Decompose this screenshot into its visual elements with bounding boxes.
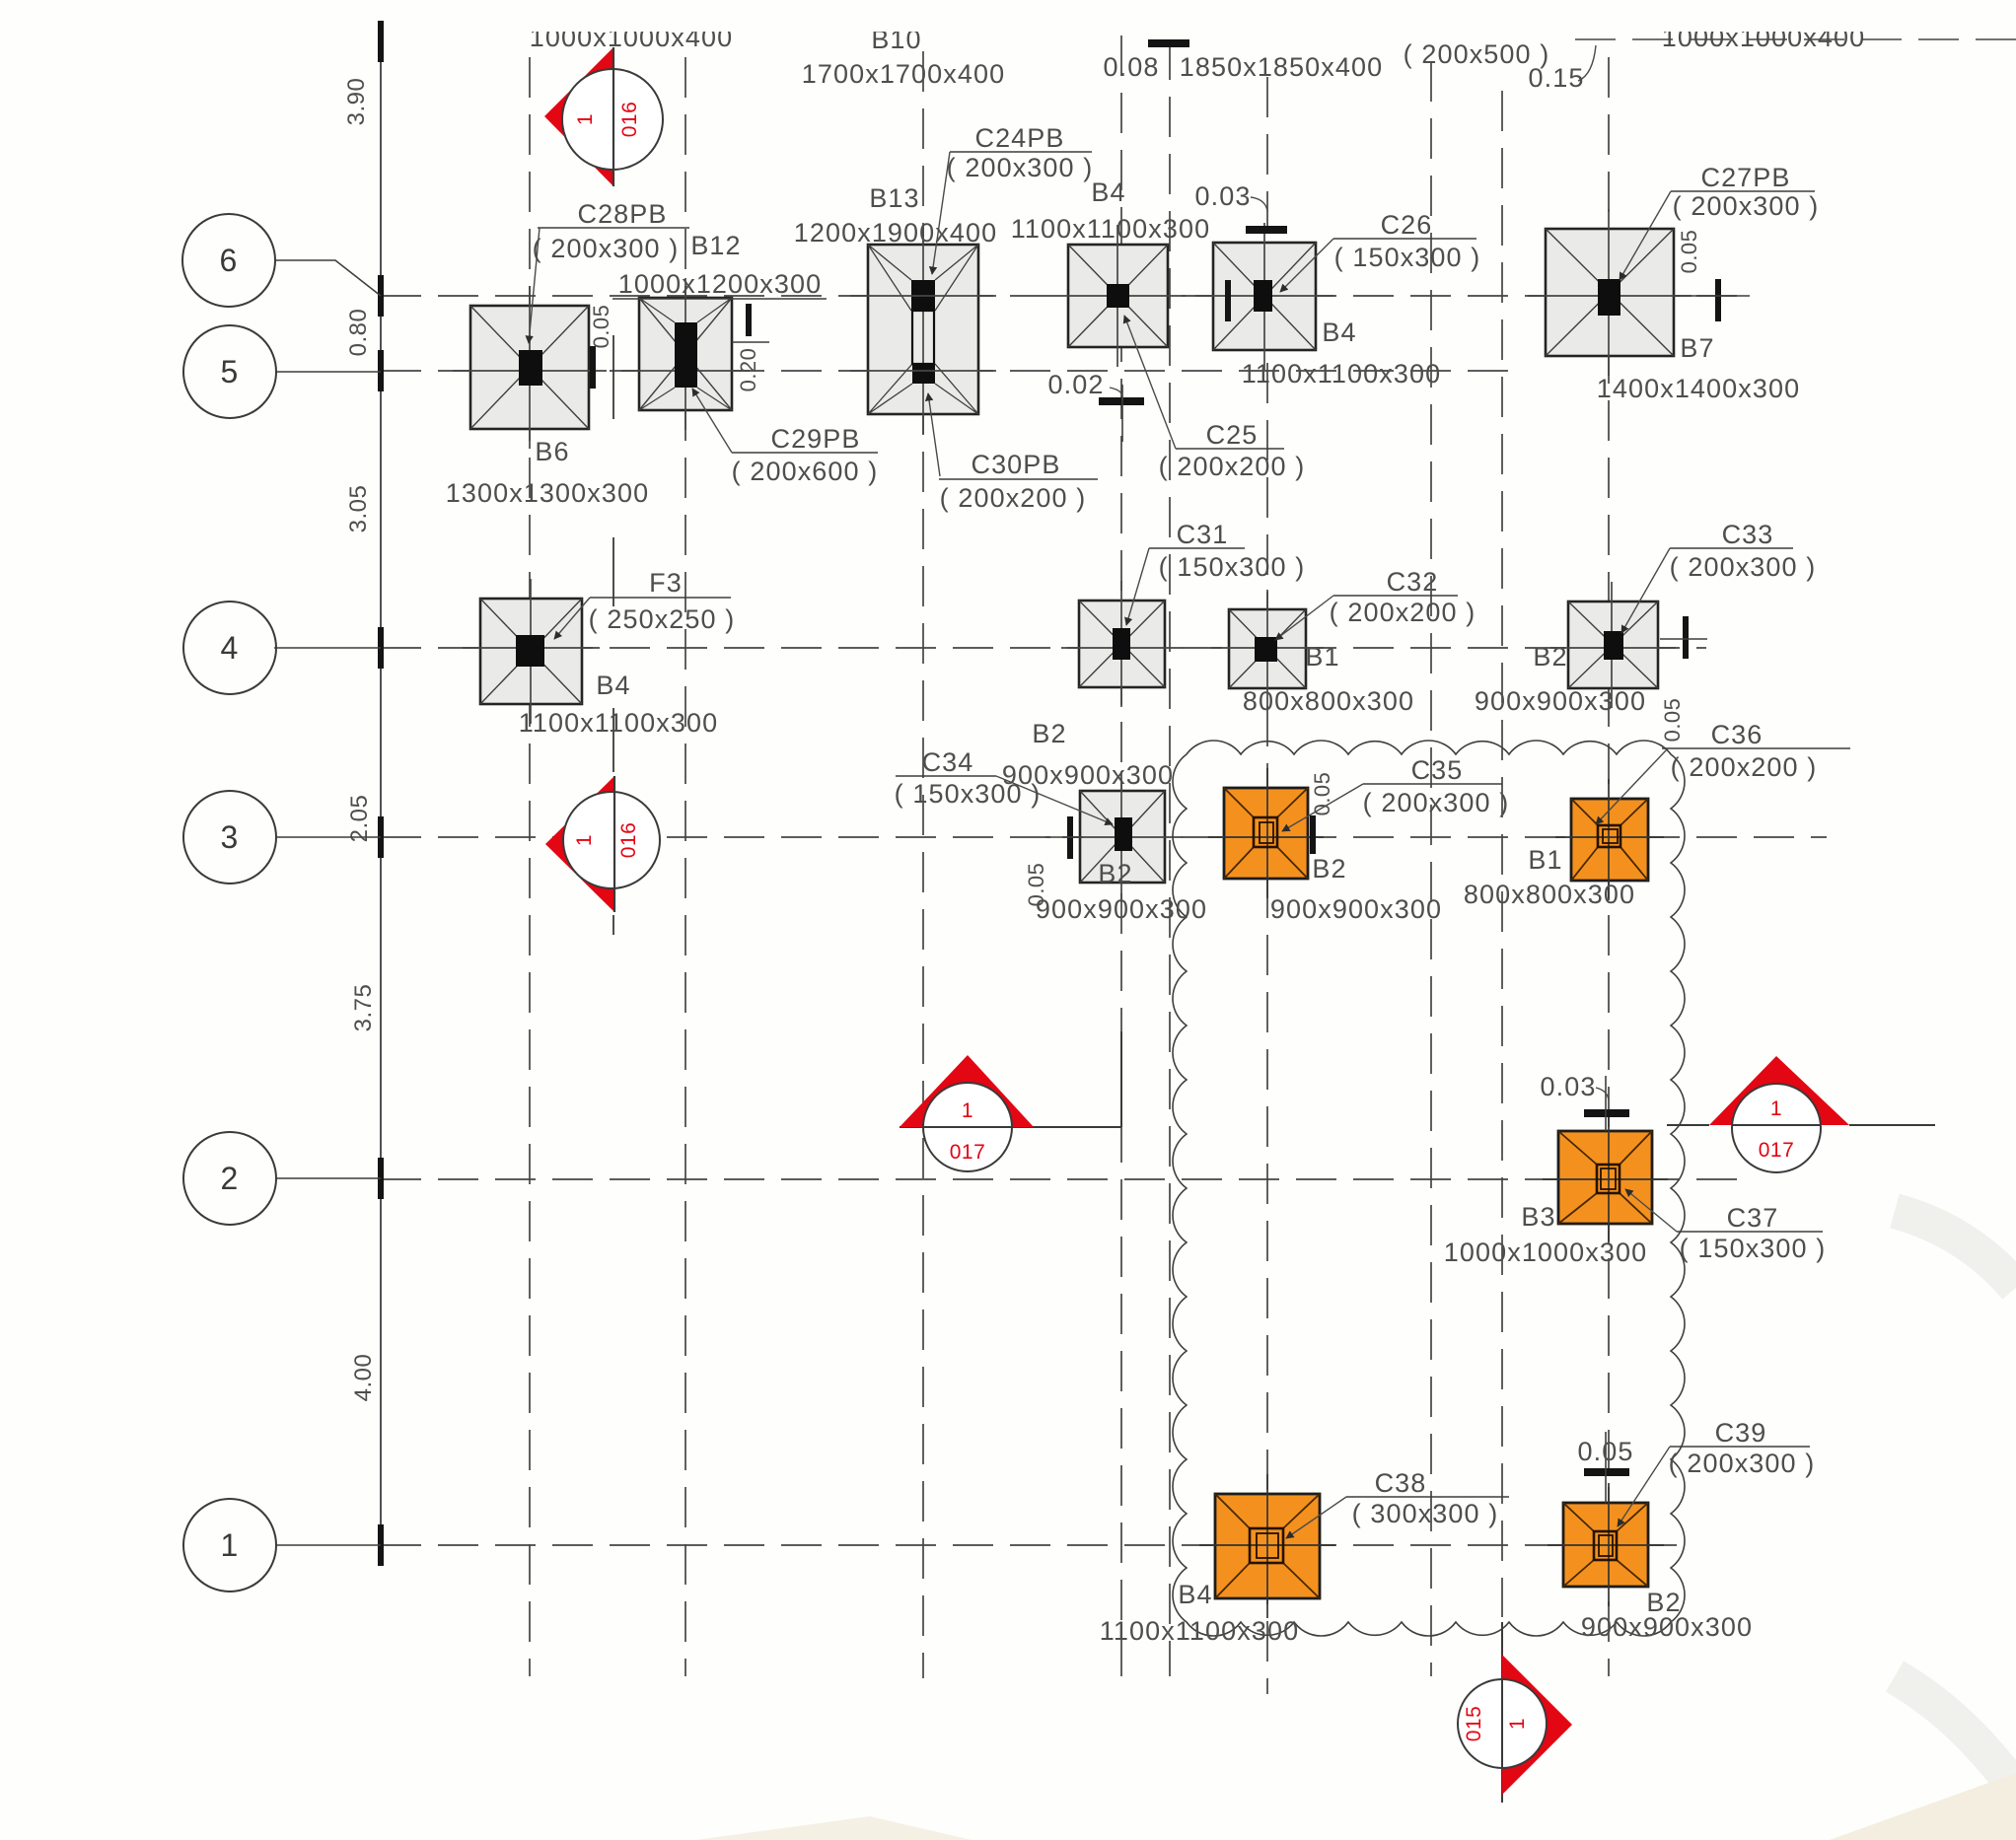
footing B2 C35	[1208, 768, 1324, 898]
grid bubble 3	[183, 791, 276, 884]
section marker 1/017 right	[1667, 1124, 1709, 1126]
svg-text:C35: C35	[1411, 755, 1464, 785]
svg-text:2.05: 2.05	[346, 795, 373, 843]
grid bubble 6	[182, 214, 275, 307]
svg-text:B2: B2	[1312, 854, 1346, 884]
svg-text:B4: B4	[1322, 318, 1356, 347]
svg-text:1200x1900x400: 1200x1900x400	[794, 218, 997, 248]
grid bubble 2	[183, 1132, 276, 1225]
watermark band bottom center	[695, 1816, 972, 1840]
grid line 5 y=376	[381, 370, 1514, 372]
grid line D x=1137	[1120, 35, 1122, 1676]
svg-text:B2: B2	[1533, 642, 1567, 672]
svg-text:016: 016	[618, 102, 641, 138]
svg-text:C24PB: C24PB	[974, 123, 1064, 153]
svg-text:1100x1100x300: 1100x1100x300	[1011, 214, 1210, 244]
svg-text:( 150x300 ): ( 150x300 )	[1680, 1234, 1827, 1263]
svg-text:900x900x300: 900x900x300	[1036, 894, 1207, 924]
grid line G x=1451	[1430, 61, 1432, 1676]
svg-text:800x800x300: 800x800x300	[1464, 880, 1635, 909]
vertical dimension line	[380, 39, 382, 1545]
svg-text:1000x1000x300: 1000x1000x300	[1444, 1238, 1647, 1267]
svg-text:B3: B3	[1521, 1202, 1555, 1232]
svg-text:1: 1	[1770, 1097, 1782, 1120]
svg-text:C34: C34	[922, 747, 974, 777]
offset tick B7 right	[1715, 279, 1721, 321]
section marker 1/016 top	[544, 47, 613, 186]
svg-text:6: 6	[220, 243, 239, 278]
svg-text:1: 1	[221, 1527, 240, 1563]
grid line B x=695	[684, 57, 686, 1676]
revision cloud	[1173, 741, 1685, 1636]
svg-text:( 200x200 ): ( 200x200 )	[940, 483, 1087, 513]
footing B7	[1528, 209, 1692, 376]
offset tick C33 right	[1683, 616, 1689, 659]
svg-text:900x900x300: 900x900x300	[1270, 894, 1442, 924]
offset tick C35 right	[1310, 815, 1316, 854]
svg-text:1850x1850x400: 1850x1850x400	[1180, 52, 1383, 82]
bubble leaders	[275, 260, 381, 296]
footing B4 grid6 left	[1050, 225, 1186, 367]
footing B3 C37	[1543, 1111, 1668, 1243]
svg-text:4.00: 4.00	[350, 1354, 377, 1402]
footing B2 C39	[1548, 1483, 1664, 1606]
grid line E x=1186	[1169, 39, 1171, 1676]
svg-text:B6: B6	[535, 437, 569, 466]
grid line 2 y=1196	[381, 1178, 1748, 1180]
svg-text:C33: C33	[1722, 520, 1774, 549]
grid line I x=1631	[1608, 57, 1610, 1676]
svg-text:C38: C38	[1375, 1468, 1427, 1498]
svg-text:800x800x300: 800x800x300	[1243, 686, 1414, 716]
svg-text:( 200x300 ): ( 200x300 )	[1363, 788, 1510, 817]
section marker 1/016 grid3	[545, 776, 614, 912]
svg-text:( 250x250 ): ( 250x250 )	[589, 604, 736, 634]
svg-text:C27PB: C27PB	[1700, 163, 1790, 192]
offset tick above C39	[1584, 1468, 1629, 1476]
svg-text:C26: C26	[1381, 210, 1433, 240]
offset tick top 0.08	[1148, 39, 1189, 47]
svg-text:5: 5	[221, 354, 240, 389]
grid line A x=537	[529, 57, 531, 1676]
svg-text:017: 017	[1759, 1139, 1795, 1162]
svg-text:2: 2	[221, 1161, 240, 1196]
svg-text:B1: B1	[1305, 642, 1339, 672]
svg-text:0.15: 0.15	[1529, 63, 1585, 93]
offset tick below B4 left	[1099, 397, 1144, 405]
svg-text:1: 1	[573, 834, 596, 846]
svg-text:1: 1	[1506, 1718, 1529, 1730]
svg-text:3: 3	[221, 819, 240, 855]
svg-text:C36: C36	[1711, 720, 1764, 749]
offset tick 0.20 B12	[746, 304, 752, 336]
svg-text:B12: B12	[690, 231, 741, 260]
section line 1/016 vertical segments	[612, 335, 614, 935]
watermark arcs bottom right	[1895, 1211, 2016, 1288]
svg-text:( 200x600 ): ( 200x600 )	[732, 457, 879, 486]
section marker 1/017 left	[900, 1126, 1121, 1128]
svg-text:1000x1200x300: 1000x1200x300	[618, 269, 822, 299]
svg-text:( 300x300 ): ( 300x300 )	[1352, 1499, 1499, 1528]
offset tick C34 left	[1067, 816, 1073, 859]
svg-text:B13: B13	[869, 183, 919, 213]
svg-text:( 200x200 ): ( 200x200 )	[1330, 598, 1476, 627]
section marker 015/1 bottom	[1501, 1622, 1503, 1803]
svg-text:( 150x300 ): ( 150x300 )	[1334, 243, 1481, 272]
grid bubble 1	[183, 1499, 276, 1592]
svg-text:0.05: 0.05	[1310, 772, 1334, 816]
svg-text:0.02: 0.02	[1048, 370, 1105, 399]
svg-text:0.03: 0.03	[1195, 181, 1252, 211]
svg-text:017: 017	[950, 1141, 986, 1164]
svg-text:( 200x300 ): ( 200x300 )	[1673, 191, 1820, 221]
footing B4 grid6 right	[1195, 223, 1333, 370]
offset tick 0.03 top	[1246, 226, 1287, 234]
svg-text:1100x1100x300: 1100x1100x300	[1100, 1616, 1299, 1646]
svg-text:1300x1300x300: 1300x1300x300	[446, 478, 649, 508]
svg-text:F3: F3	[649, 568, 683, 598]
svg-text:C29PB: C29PB	[770, 424, 860, 454]
svg-text:B4: B4	[1091, 177, 1125, 207]
svg-text:C39: C39	[1715, 1418, 1767, 1448]
svg-text:B2: B2	[1032, 719, 1066, 748]
footing B1 C32	[1211, 590, 1324, 708]
svg-text:( 150x300 ): ( 150x300 )	[895, 779, 1042, 809]
svg-text:1100x1100x300: 1100x1100x300	[519, 708, 718, 738]
svg-text:C30PB: C30PB	[971, 450, 1060, 479]
svg-text:1700x1700x400: 1700x1700x400	[802, 59, 1005, 89]
footing B4 C38	[1199, 1474, 1335, 1618]
svg-text:B4: B4	[596, 671, 630, 700]
svg-text:0.03: 0.03	[1541, 1072, 1597, 1101]
svg-text:B2: B2	[1098, 859, 1132, 888]
svg-text:( 150x300 ): ( 150x300 )	[1159, 552, 1306, 582]
svg-text:016: 016	[617, 822, 640, 859]
svg-text:900x900x300: 900x900x300	[1581, 1612, 1753, 1642]
grid line F x=1285	[1266, 77, 1268, 1694]
svg-text:3.05: 3.05	[345, 485, 372, 533]
svg-text:0.20: 0.20	[736, 348, 760, 392]
offset tick B6/B12	[590, 346, 596, 389]
svg-text:B4: B4	[1178, 1580, 1212, 1609]
footing B6	[453, 286, 607, 449]
footing B1 C36	[1555, 779, 1664, 900]
svg-text:0.05: 0.05	[1578, 1437, 1634, 1466]
footing B12	[621, 278, 750, 430]
grid line C x=936	[922, 51, 924, 1678]
svg-text:0.05: 0.05	[589, 305, 613, 349]
svg-text:0.08: 0.08	[1104, 52, 1160, 82]
svg-text:015: 015	[1463, 1706, 1485, 1742]
svg-text:C28PB: C28PB	[577, 199, 667, 229]
grid bubble 4	[183, 602, 276, 694]
footing B4 grid4	[463, 579, 600, 724]
svg-text:C31: C31	[1177, 520, 1229, 549]
svg-text:( 200x300 ): ( 200x300 )	[1669, 1449, 1816, 1478]
svg-text:B1: B1	[1528, 845, 1562, 875]
svg-text:0.05: 0.05	[1677, 230, 1701, 274]
svg-text:( 200x300 ): ( 200x300 )	[533, 234, 680, 263]
svg-text:( 200x300 ): ( 200x300 )	[1670, 552, 1817, 582]
footing B13	[850, 225, 996, 434]
footing B2 C34	[1062, 771, 1183, 902]
svg-text:3.90: 3.90	[343, 78, 370, 126]
svg-text:1100x1100x300: 1100x1100x300	[1242, 359, 1441, 389]
grid line 6 y=300	[381, 295, 1752, 297]
svg-text:1400x1400x300: 1400x1400x300	[1597, 374, 1800, 403]
svg-text:4: 4	[221, 630, 240, 666]
grid line 3 y=849	[381, 836, 1827, 838]
grid line H x=1523	[1501, 91, 1503, 1617]
svg-text:C37: C37	[1727, 1203, 1779, 1233]
footing B2 C31	[1061, 581, 1183, 707]
grid line 4 y=657	[381, 647, 1706, 649]
svg-text:( 200x200 ): ( 200x200 )	[1159, 452, 1306, 481]
svg-text:1: 1	[962, 1099, 973, 1122]
svg-text:( 200x300 ): ( 200x300 )	[947, 153, 1094, 182]
offset tick above B3	[1584, 1109, 1629, 1117]
footing B2 C33	[1550, 582, 1676, 708]
svg-text:900x900x300: 900x900x300	[1475, 686, 1646, 716]
offset tick C26	[1225, 280, 1231, 321]
svg-text:0.05: 0.05	[1660, 698, 1685, 743]
grid line 1 y=1567	[381, 1544, 1677, 1546]
svg-text:C25: C25	[1206, 420, 1259, 450]
svg-text:B7: B7	[1680, 333, 1714, 363]
svg-text:1: 1	[574, 113, 597, 125]
svg-text:3.75: 3.75	[350, 984, 377, 1032]
svg-text:0.80: 0.80	[345, 309, 372, 357]
grid bubble 5	[183, 325, 276, 418]
svg-text:C32: C32	[1387, 567, 1439, 597]
svg-text:( 200x200 ): ( 200x200 )	[1671, 752, 1818, 782]
